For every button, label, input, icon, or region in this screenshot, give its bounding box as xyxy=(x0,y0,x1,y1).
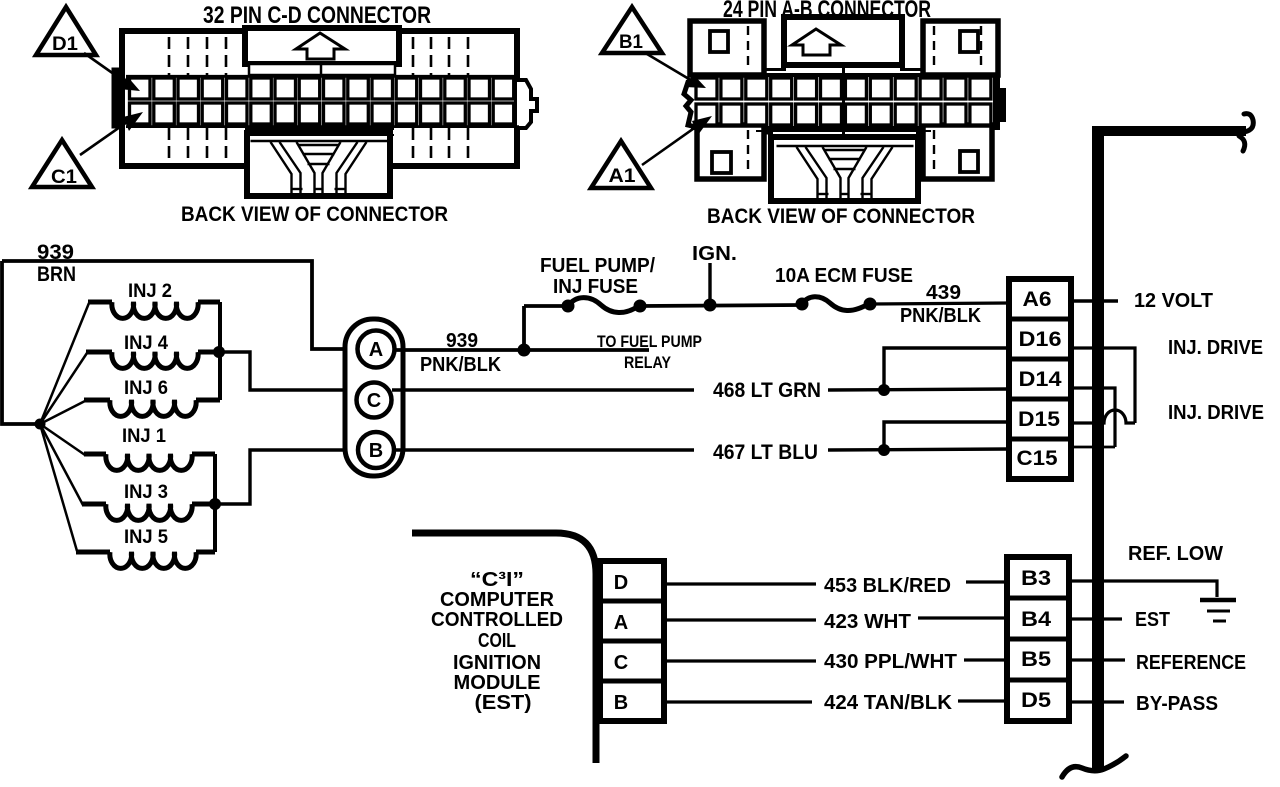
24-pin top tab with arrow xyxy=(784,17,902,65)
svg-text:439: 439 xyxy=(926,282,961,304)
wire D5 to BY-PASS xyxy=(1069,700,1124,703)
32-pin connector body xyxy=(114,31,537,166)
wire 439 PNK/BLK to pin A6 xyxy=(870,303,1009,304)
24-pin bottom strain-relief tab xyxy=(771,137,918,201)
24-pin corner ear top-right xyxy=(923,21,998,75)
riser wire from junction to fuse line xyxy=(522,306,526,350)
junction node on 939 feed xyxy=(518,344,531,357)
svg-text:B: B xyxy=(369,440,383,462)
ECM pin block A6/D16/D14/D15/C15 xyxy=(1009,279,1071,479)
svg-text:INJ 1: INJ 1 xyxy=(122,426,166,447)
svg-text:10A ECM FUSE: 10A ECM FUSE xyxy=(775,265,913,287)
svg-text:MODULE: MODULE xyxy=(454,672,541,694)
callout triangle C1 xyxy=(32,140,92,187)
ECM pin block B3/B4/B5/D5 xyxy=(1007,557,1069,721)
svg-text:INJ 5: INJ 5 xyxy=(124,527,168,548)
break squiggle bottom xyxy=(1062,756,1126,777)
bus wire joining INJ 1/3/5 xyxy=(213,454,217,552)
branch to pin D15 xyxy=(884,422,1009,450)
svg-text:467 LT BLU: 467 LT BLU xyxy=(713,441,818,464)
svg-text:423 WHT: 423 WHT xyxy=(824,611,911,633)
callout triangle A1 xyxy=(591,141,651,188)
32-pin lower shelf and center tick xyxy=(245,128,394,130)
32-pin keyway stripes bottom-right xyxy=(413,128,468,164)
leader arrow D1 to pin D1 xyxy=(84,53,128,84)
32-pin bottom strain-relief tab xyxy=(247,133,390,196)
svg-text:BACK VIEW OF CONNECTOR: BACK VIEW OF CONNECTOR xyxy=(707,204,975,228)
svg-text:A: A xyxy=(614,612,628,634)
svg-text:D1: D1 xyxy=(52,34,78,55)
svg-text:B3: B3 xyxy=(1021,567,1051,590)
wire 453 BLK/RED from D to B3 xyxy=(664,582,816,585)
C3I module pin block D/A/C/B xyxy=(600,561,664,721)
leader arrow B1 to pin B1 xyxy=(647,54,694,82)
svg-text:IGN.: IGN. xyxy=(692,243,737,265)
svg-text:REF. LOW: REF. LOW xyxy=(1128,543,1223,565)
svg-text:TO FUEL PUMP: TO FUEL PUMP xyxy=(597,332,702,351)
wire 424 TAN/BLK from B to D5 xyxy=(664,700,812,703)
24-pin pin grid row 2 (A row) xyxy=(696,104,991,125)
fuse 10A ECM FUSE xyxy=(796,298,809,311)
24-pin connector body band xyxy=(693,75,998,128)
svg-text:430 PPL/WHT: 430 PPL/WHT xyxy=(824,651,957,673)
junction node 468 xyxy=(878,384,890,396)
svg-text:453 BLK/RED: 453 BLK/RED xyxy=(824,575,951,597)
svg-text:B5: B5 xyxy=(1021,648,1051,671)
svg-text:EST: EST xyxy=(1135,609,1170,631)
24-pin left latch xyxy=(684,78,700,128)
internal tie D14 to C15 xyxy=(1071,388,1115,447)
connector pin A xyxy=(358,331,395,368)
svg-text:424 TAN/BLK: 424 TAN/BLK xyxy=(824,692,953,714)
svg-text:939: 939 xyxy=(446,330,478,352)
svg-text:(EST): (EST) xyxy=(475,692,532,714)
fuse feed wire left segment xyxy=(524,304,568,308)
svg-text:A1: A1 xyxy=(609,166,636,187)
wire 423 WHT from A to B4 xyxy=(664,618,816,621)
wire B5 to REFERENCE xyxy=(1069,658,1125,661)
3-pin injector harness connector shell xyxy=(345,319,403,476)
svg-text:FUEL PUMP/: FUEL PUMP/ xyxy=(540,255,655,277)
svg-text:BY-PASS: BY-PASS xyxy=(1136,693,1218,715)
32-pin top tab with arrow xyxy=(245,28,399,75)
junction node 467 xyxy=(878,444,890,456)
wire B4 to EST xyxy=(1069,617,1122,620)
leader arrow C1 to pin C1 xyxy=(80,120,130,155)
svg-text:D14: D14 xyxy=(1019,368,1062,391)
svg-text:939: 939 xyxy=(37,241,74,264)
32-pin keyway stripes top-left xyxy=(169,37,226,75)
svg-text:D16: D16 xyxy=(1019,328,1062,351)
svg-text:COIL: COIL xyxy=(478,630,516,652)
svg-text:INJ 3: INJ 3 xyxy=(124,482,168,503)
svg-text:B: B xyxy=(614,692,628,714)
connector pin C xyxy=(357,383,392,418)
junction node INJ 3 xyxy=(209,498,221,510)
wire 939 PNK/BLK from pin A to fuel pump relay stub xyxy=(395,348,649,352)
svg-text:A6: A6 xyxy=(1023,288,1052,311)
wire B3 to REF. LOW ground xyxy=(1069,581,1217,597)
wire 939 BRN from splice to connector A xyxy=(2,261,357,349)
wire from INJ 2/4/6 junction to connector C xyxy=(219,352,356,390)
svg-text:A: A xyxy=(369,339,383,361)
svg-text:COMPUTER: COMPUTER xyxy=(440,589,555,611)
24-pin corner ear top-left xyxy=(690,21,764,75)
junction node INJ 4 xyxy=(213,346,225,358)
splice node (injector common feed) xyxy=(35,419,46,430)
svg-text:INJ 4: INJ 4 xyxy=(124,333,168,354)
24-pin pin grid row 1 (B row) xyxy=(696,78,991,99)
svg-text:C1: C1 xyxy=(51,167,77,188)
svg-text:PNK/BLK: PNK/BLK xyxy=(420,354,502,376)
svg-text:B4: B4 xyxy=(1021,608,1051,631)
svg-text:D15: D15 xyxy=(1018,408,1060,431)
fuse FUEL PUMP / INJ FUSE xyxy=(562,300,575,313)
svg-text:32 PIN C-D CONNECTOR: 32 PIN C-D CONNECTOR xyxy=(203,2,431,29)
24-pin body edge segments xyxy=(764,68,786,71)
svg-text:REFERENCE: REFERENCE xyxy=(1136,652,1246,674)
break squiggle top xyxy=(1244,114,1253,132)
connector pin B xyxy=(358,432,394,468)
24-pin center divider xyxy=(842,65,845,136)
24-pin lower shelf xyxy=(756,130,931,132)
svg-text:12 VOLT: 12 VOLT xyxy=(1134,290,1213,312)
svg-text:BRN: BRN xyxy=(37,263,76,286)
wire from INJ 1/3/5 junction to connector B xyxy=(215,450,358,504)
32-pin pin band edges xyxy=(126,75,519,78)
24-pin corner ear bottom-left xyxy=(697,125,764,179)
svg-text:“C³I”: “C³I” xyxy=(470,569,524,591)
svg-text:D5: D5 xyxy=(1021,689,1051,712)
32-pin keyway stripes top-right xyxy=(413,37,468,75)
svg-text:BACK VIEW OF CONNECTOR: BACK VIEW OF CONNECTOR xyxy=(181,202,448,226)
ECM boundary thick bar xyxy=(1092,126,1104,772)
svg-text:RELAY: RELAY xyxy=(624,353,672,372)
ground symbol xyxy=(1200,598,1236,603)
svg-text:INJ. DRIVE: INJ. DRIVE xyxy=(1168,402,1264,424)
wire 467 LT BLU from pin B to ECM xyxy=(394,448,694,451)
svg-text:C: C xyxy=(367,390,381,412)
svg-text:CONTROLLED: CONTROLLED xyxy=(431,609,563,631)
callout triangle D1 xyxy=(36,7,96,55)
24-pin corner ear bottom-right xyxy=(923,125,992,179)
32-pin pin grid row 2 (C row) xyxy=(130,103,514,124)
svg-text:INJ. DRIVE: INJ. DRIVE xyxy=(1168,337,1263,359)
svg-text:C: C xyxy=(614,652,628,674)
svg-text:B1: B1 xyxy=(619,32,643,53)
wire 430 PPL/WHT from C to B5 xyxy=(664,659,816,662)
wire fuse to IGN junction xyxy=(640,305,802,306)
svg-text:468 LT GRN: 468 LT GRN xyxy=(713,379,821,402)
C3I module boundary xyxy=(412,533,596,763)
svg-text:IGNITION: IGNITION xyxy=(453,652,541,674)
svg-text:INJ 2: INJ 2 xyxy=(128,281,172,302)
svg-text:C15: C15 xyxy=(1017,447,1058,470)
wire 468 LT GRN from pin C to ECM xyxy=(392,388,694,391)
wire A6 to 12 VOLT xyxy=(1071,299,1118,302)
svg-text:INJ FUSE: INJ FUSE xyxy=(553,276,638,298)
bus wire joining INJ 2/4/6 xyxy=(218,302,222,400)
24-pin right edge xyxy=(993,66,1000,128)
branch to pin D16 xyxy=(884,348,1009,390)
internal tie D16 to D15 xyxy=(1071,348,1135,423)
32-pin pin grid row 1 (D row) xyxy=(130,78,514,99)
svg-text:D: D xyxy=(614,572,628,594)
leader arrow A1 to pin A1 xyxy=(642,124,700,165)
32-pin keyway stripes bottom-left xyxy=(169,128,226,164)
svg-text:PNK/BLK: PNK/BLK xyxy=(900,305,982,327)
fan wires from splice to injectors xyxy=(40,303,89,551)
callout triangle B1 xyxy=(602,7,662,53)
svg-text:INJ 6: INJ 6 xyxy=(124,378,168,399)
